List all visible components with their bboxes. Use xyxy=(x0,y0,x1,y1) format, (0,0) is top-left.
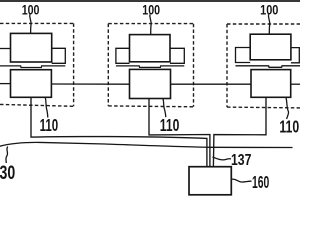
svg-text:100: 100 xyxy=(22,1,40,17)
leader for label 137 xyxy=(213,157,232,160)
inter-module wire (module 3 to image edge) xyxy=(291,83,300,85)
svg-text:160: 160 xyxy=(252,172,269,192)
leader for label 100 (module 3) xyxy=(268,14,269,34)
monitoring unit 110 (module 1) xyxy=(11,70,52,98)
wire from module 2 down and to bundle xyxy=(149,99,210,167)
left terminal tab (module 3) xyxy=(236,48,251,63)
dashed module box 3 xyxy=(227,24,300,108)
dashed module box 2 xyxy=(108,24,193,107)
right terminal tab (module 2) xyxy=(170,48,184,63)
socket wire with notch (module 2) xyxy=(116,66,184,68)
control unit box 160 xyxy=(189,167,231,195)
inter-module wire (left edge to module 1) xyxy=(0,83,11,85)
right terminal tab (module 3, near image edge) xyxy=(291,48,299,63)
socket wire with notch (module 1) xyxy=(0,66,65,68)
leader for label 160 xyxy=(231,179,251,182)
battery cell block 100 (module 3) xyxy=(250,34,291,60)
top page border line xyxy=(0,0,300,2)
svg-text:110: 110 xyxy=(160,115,180,135)
leader for label 100 (module 2) xyxy=(150,14,151,34)
left terminal wire (module 1, cut at image edge) xyxy=(0,48,11,50)
wire from module 3 down and to bundle xyxy=(213,97,266,166)
leader for label 100 (module 1) xyxy=(30,14,31,33)
battery cell block 100 (module 1) xyxy=(11,33,52,62)
monitoring unit 110 (module 3) xyxy=(251,70,291,98)
inter-module wire (module 2 to module 3) xyxy=(171,83,252,85)
svg-text:30: 30 xyxy=(0,162,15,184)
monitoring unit 110 (module 2) xyxy=(130,69,171,98)
inter-module wire (module 1 to module 2) xyxy=(51,83,129,85)
svg-text:100: 100 xyxy=(260,1,278,17)
svg-text:137: 137 xyxy=(231,151,251,169)
bus line 130 xyxy=(0,142,293,147)
dashed module box 1 xyxy=(0,23,74,106)
wire from module 1 down and to bundle xyxy=(31,97,207,166)
svg-text:100: 100 xyxy=(142,1,160,17)
leader for label 110 (module 2) xyxy=(163,99,166,118)
svg-text:110: 110 xyxy=(279,117,299,137)
svg-text:110: 110 xyxy=(40,115,59,135)
left terminal tab (module 2) xyxy=(116,48,130,63)
leader for label 110 (module 1) xyxy=(45,97,48,117)
right terminal tab (module 1) xyxy=(52,48,66,63)
leader for label 130 xyxy=(6,147,8,163)
leader for label 110 (module 3) xyxy=(286,97,289,119)
socket wire with notch (module 3) xyxy=(236,66,301,68)
battery cell block 100 (module 2) xyxy=(130,35,171,62)
